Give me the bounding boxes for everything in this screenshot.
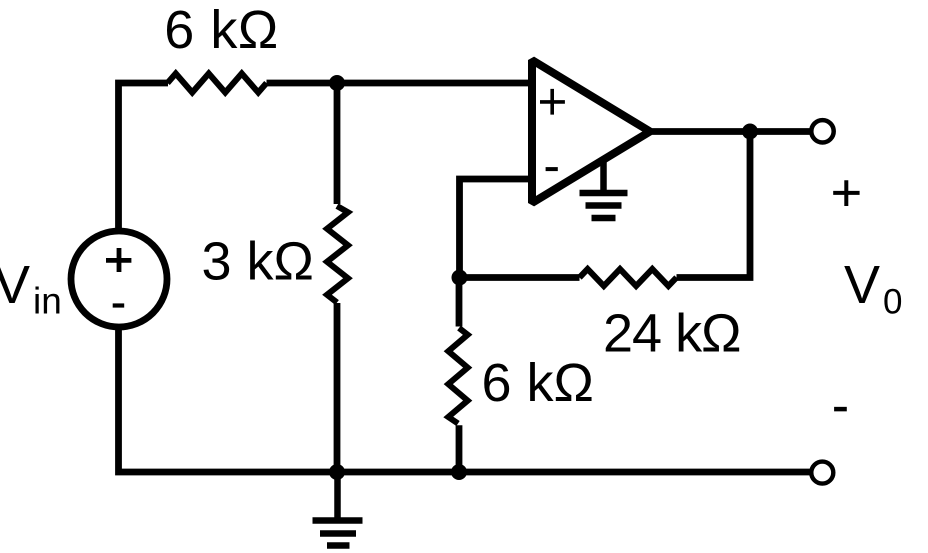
svg-text:3 kΩ: 3 kΩ bbox=[202, 232, 314, 292]
svg-text:24 kΩ: 24 kΩ bbox=[603, 304, 740, 364]
ground under op-amp: bar 2 bbox=[586, 202, 622, 209]
ground bottom: stem bbox=[334, 472, 341, 518]
svg-text:in: in bbox=[33, 281, 62, 322]
svg-text:V: V bbox=[844, 255, 880, 315]
ground bottom: bar 3 bbox=[327, 542, 350, 549]
wire 3k top segment bbox=[334, 83, 341, 204]
output - polarity sign bbox=[834, 407, 847, 412]
terminal O output - bbox=[811, 462, 833, 484]
svg-text:V: V bbox=[0, 255, 30, 315]
node E (bottom rail / R4 junction) bbox=[451, 464, 467, 480]
wire top rail from R1 to op-amp + input bbox=[267, 80, 536, 87]
op-amp - input sign bbox=[546, 167, 558, 171]
ground under op-amp: bar 1 bbox=[580, 190, 628, 197]
output + polarity sign bbox=[833, 180, 859, 206]
ground under op-amp: stem bbox=[600, 158, 607, 193]
svg-text:6 kΩ: 6 kΩ bbox=[482, 353, 594, 413]
source + sign bbox=[106, 248, 131, 272]
voltage source V_in circle bbox=[71, 231, 167, 327]
wire source bottom + bottom rail bbox=[119, 327, 811, 472]
wire feedback horizontal to R3 bbox=[460, 274, 580, 281]
op-amp + input sign bbox=[540, 89, 565, 115]
ground bottom: bar 2 bbox=[320, 530, 356, 537]
ground bottom: bar 1 bbox=[313, 517, 363, 524]
wire op-amp output bbox=[650, 128, 813, 135]
wire 3k bottom segment bbox=[334, 303, 341, 472]
resistor R2 3k (vertical) bbox=[327, 206, 348, 303]
ground under op-amp: bar 3 bbox=[592, 215, 616, 222]
resistor R1 6k (top horizontal) bbox=[168, 74, 267, 93]
wire 6k bottom segment bbox=[456, 425, 463, 472]
wire top-left corner (source top to R1) bbox=[119, 83, 169, 232]
svg-text:6 kΩ: 6 kΩ bbox=[164, 0, 278, 60]
node A (R1/R2/op-amp + junction) bbox=[329, 75, 345, 91]
node D (bottom rail / ground junction) bbox=[329, 464, 345, 480]
resistor R3 24k (horizontal feedback) bbox=[580, 269, 677, 286]
source - sign bbox=[113, 303, 125, 307]
node B (output junction) bbox=[742, 124, 758, 140]
terminal O output + bbox=[811, 120, 833, 142]
node C (feedback junction) bbox=[452, 270, 468, 286]
svg-text:0: 0 bbox=[883, 283, 902, 322]
wire 6k (R4) top segment bbox=[456, 278, 463, 327]
resistor R4 6k (vertical lower) bbox=[448, 328, 467, 424]
wire op-amp - input bbox=[460, 179, 536, 278]
wire R3 right up to output node bbox=[677, 132, 751, 278]
op-amp U1 triangle bbox=[532, 60, 650, 203]
